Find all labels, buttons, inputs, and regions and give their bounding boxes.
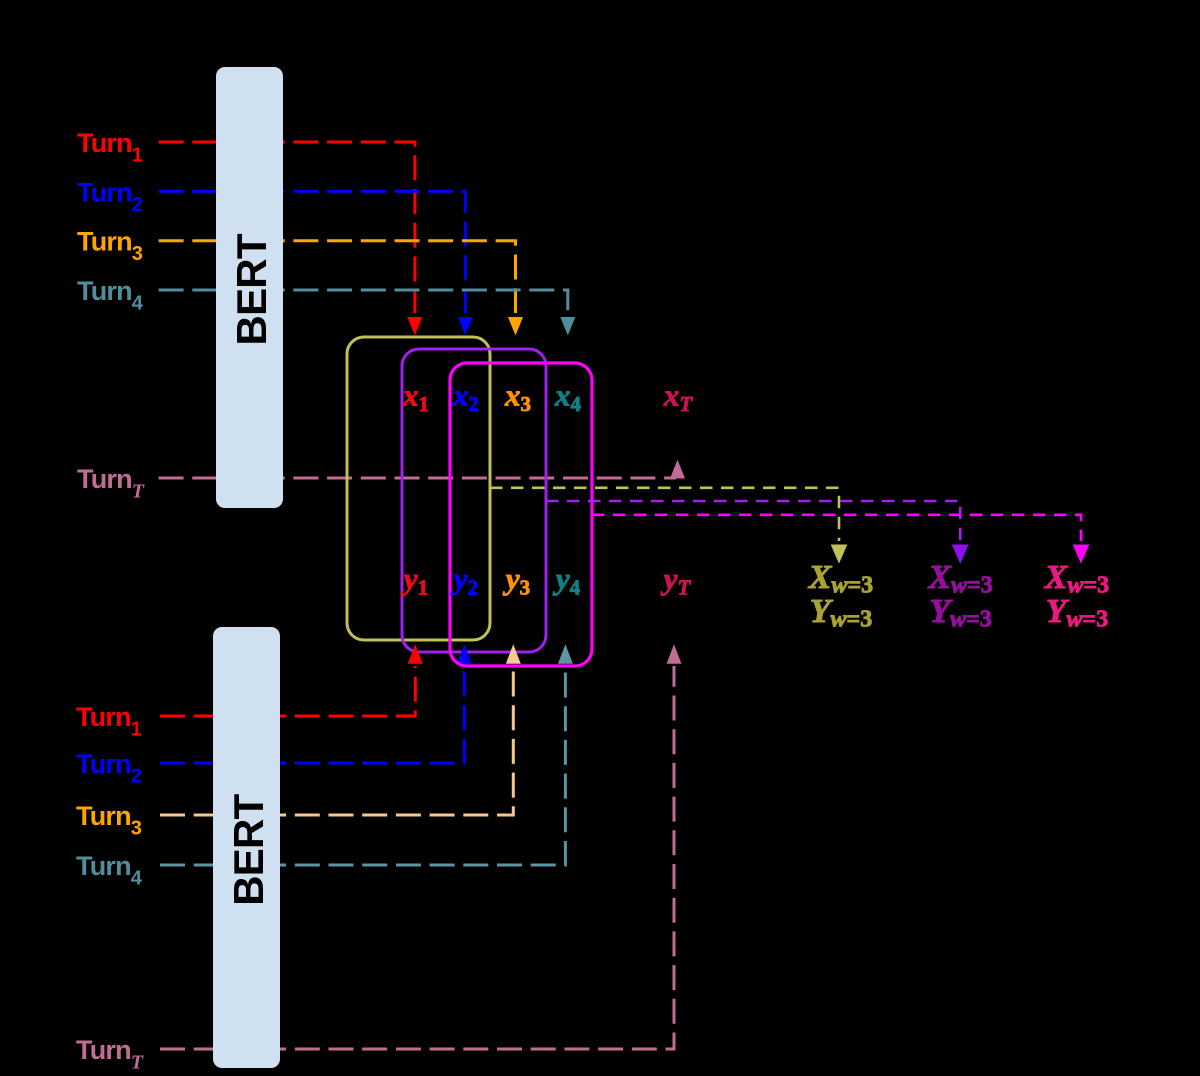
window box olive (347, 337, 490, 640)
wire window olive out (490, 488, 839, 541)
arrow window magenta (1073, 545, 1090, 564)
arrow turn2 bottom (457, 644, 472, 663)
arrow turnT top (670, 460, 685, 479)
arrow turnT bottom (667, 644, 682, 663)
arrow turn3 top (508, 317, 523, 336)
wire turnT top (159, 477, 676, 480)
svg-text:BERT: BERT (228, 233, 275, 345)
svg-text:BERT: BERT (225, 793, 272, 905)
arrow turn1 top (407, 317, 422, 336)
arrow turn4 bottom (558, 644, 573, 663)
wire turnT bottom (160, 666, 674, 1049)
wire turn3 bottom (peach) (160, 666, 513, 815)
wire turn4 top (159, 290, 568, 313)
wire window magenta out (592, 515, 1081, 541)
wire window purple out (546, 501, 960, 541)
window box purple (402, 349, 546, 652)
arrow turn4 top (560, 317, 575, 336)
arrow window purple (952, 545, 969, 564)
BERT box bottom (213, 627, 280, 1068)
BERT box top (216, 67, 283, 508)
wire turn2 bottom (160, 666, 464, 763)
arrow turn2 top (458, 317, 473, 336)
wire turn1 top (159, 142, 415, 313)
arrow turn3 bottom (506, 644, 521, 663)
window box magenta (450, 363, 592, 666)
wire turn4 bottom (160, 666, 565, 865)
wire turn2 top (159, 191, 466, 313)
wire turn3 top (159, 241, 516, 313)
arrow window olive (831, 545, 848, 564)
arrow turn1 bottom (408, 644, 423, 663)
wire turn1 bottom (160, 666, 415, 716)
